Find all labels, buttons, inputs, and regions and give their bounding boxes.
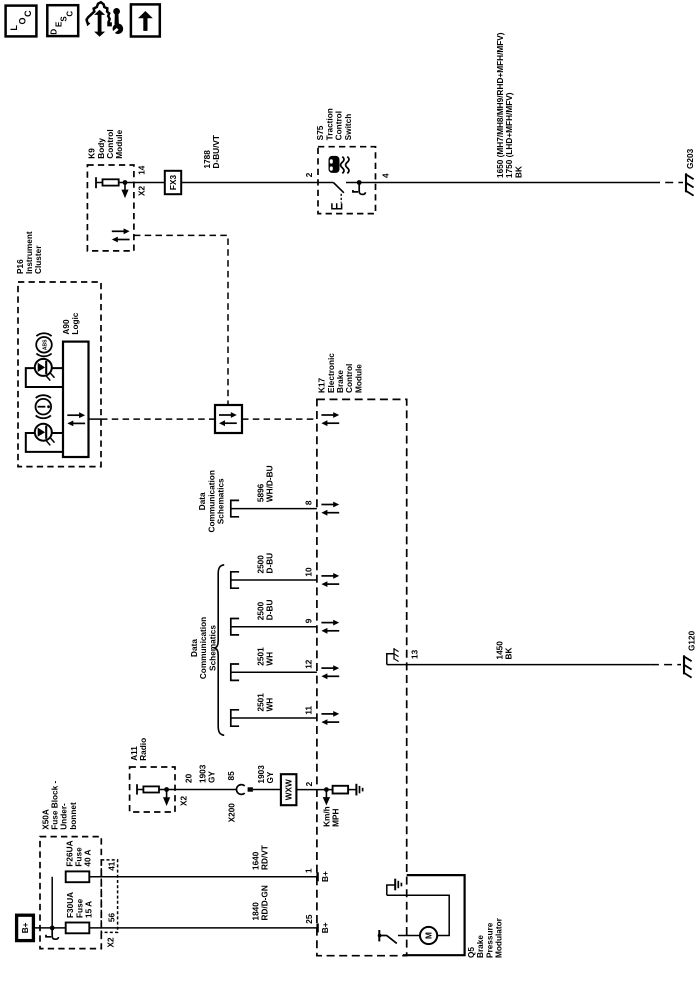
switch blade S75: [333, 183, 344, 193]
A90 Logic box: [63, 342, 89, 457]
wire 5896 WH/D-BU: [232, 508, 317, 510]
serial data arrows in A90: [67, 412, 85, 426]
svg-text:14: 14: [138, 165, 147, 175]
svg-text:11: 11: [304, 705, 313, 714]
svg-text:D: D: [50, 29, 59, 35]
serial arrows pin 11: [321, 711, 339, 725]
terminal tick pin 1: [316, 872, 318, 881]
off-page connector data wire 5896: [231, 500, 239, 516]
serial data arrows in K17: [321, 412, 339, 426]
S75 Traction Control Switch box: [318, 147, 376, 214]
wire 1903 GY from X200 to WXW: [253, 789, 281, 791]
off-page connector data wire 2500 pin 9: [231, 619, 239, 635]
A11 Radio box: [130, 767, 175, 812]
inline connector X200: [236, 785, 252, 795]
svg-text:X2: X2: [179, 795, 188, 806]
detent hook at S75: [353, 183, 366, 194]
wire 1788 from K9 to S75: [119, 182, 334, 184]
serial arrows pin 10: [321, 573, 339, 587]
resistor in A11: [137, 784, 159, 794]
wire 2501 WH pin 11: [232, 717, 317, 719]
junction dot S75 pin 4: [357, 180, 362, 185]
traction control icon in S75: [329, 156, 350, 174]
svg-text:O: O: [17, 17, 27, 24]
svg-text:10: 10: [304, 567, 313, 577]
dashed wire segment to G120: [651, 664, 681, 666]
svg-text:8: 8: [304, 500, 313, 505]
svg-text:2500D-BU: 2500D-BU: [257, 553, 275, 574]
junction dot Km/h: [324, 787, 329, 792]
K17 Electronic Brake Control Module box: [317, 399, 407, 955]
dashed serial bus junction box to K17: [242, 418, 317, 420]
svg-text:9: 9: [304, 618, 313, 623]
inline connector FX3: [165, 171, 181, 194]
K9 Body Control Module box: [87, 165, 133, 251]
dashed serial bus P16 to junction box: [101, 418, 215, 420]
serial data junction box: [215, 405, 242, 433]
signal arrow Km/h MPH: [323, 790, 330, 805]
wire resistor to internal ground: [348, 789, 356, 791]
svg-text:4: 4: [382, 173, 391, 178]
svg-text:B+: B+: [21, 922, 30, 933]
earth ground in K17 speed input: [356, 784, 362, 796]
svg-text:2: 2: [305, 172, 314, 177]
svg-text:X2: X2: [137, 185, 146, 196]
svg-text:M: M: [425, 932, 434, 939]
wire 2501 WH pin 12: [232, 671, 317, 673]
telltale (!) brake warning: [36, 395, 52, 418]
dashed wire segment to G203: [652, 182, 683, 184]
resistor in K17 speed input: [333, 786, 349, 794]
icon DESC box: [47, 5, 78, 36]
wire from A90 to P16 edge: [89, 418, 102, 420]
svg-text:FX3: FX3: [169, 175, 178, 191]
svg-text:G203: G203: [686, 148, 695, 169]
wire 2500 D-BU pin 10: [232, 579, 317, 581]
svg-text:12: 12: [304, 659, 313, 669]
svg-text:C: C: [65, 11, 74, 17]
wire 2500 D-BU pin 9: [232, 626, 317, 628]
svg-text:C: C: [23, 10, 33, 17]
svg-text:20: 20: [185, 773, 194, 783]
icon LOC box: [6, 6, 37, 37]
svg-text:1: 1: [305, 868, 314, 873]
svg-text:56: 56: [108, 913, 117, 923]
wire 1450 BK: [387, 664, 651, 666]
output arrow A11: [163, 790, 170, 806]
wire 1840 RD/D-GN to K17 pin 25: [89, 927, 317, 929]
serial arrows pin 12: [321, 665, 339, 679]
svg-text:Km/hMPH: Km/hMPH: [322, 806, 340, 827]
relay fixed contact in K17: [378, 930, 387, 941]
svg-text:B+: B+: [321, 922, 330, 933]
svg-text:25: 25: [305, 914, 314, 924]
junction dot A11 pin 20: [164, 787, 169, 792]
off-page connector data wire 2501 pin 11: [231, 710, 239, 726]
ground G120: [684, 655, 692, 677]
wire 1650 from S75 to G203: [346, 182, 652, 184]
splice curl to other circuits: [46, 929, 58, 940]
off-page connector data wire 2500 pin 10: [231, 572, 239, 588]
ground G203: [686, 173, 694, 195]
svg-text:X2: X2: [106, 937, 115, 948]
P16 Instrument Cluster box: [18, 282, 101, 467]
branch wire to F26UA: [51, 877, 53, 928]
telltale (ABS): [36, 333, 52, 356]
brace data communication group: [215, 565, 225, 736]
svg-text:13: 13: [411, 649, 420, 659]
svg-text:X200: X200: [227, 803, 236, 823]
svg-text:85: 85: [227, 771, 236, 781]
B+ terminal: [17, 915, 34, 940]
motor feed wire: [398, 935, 420, 937]
serial data arrows in K9: [112, 228, 130, 242]
serial arrows pin 9: [321, 620, 339, 634]
junction dot B+ branch: [50, 926, 55, 931]
svg-text:L: L: [9, 25, 19, 31]
serial data bus from K9 to junction: [134, 235, 228, 405]
svg-text:2500D-BU: 2500D-BU: [257, 600, 275, 621]
fuse F26UA 40A: [66, 871, 90, 882]
resistor in K9: [96, 177, 119, 188]
junction dot K9 pin 14: [123, 180, 128, 185]
icon vehicle with height adjust arrow and wrench: [85, 2, 123, 37]
fuse F30UA 15A: [66, 923, 90, 934]
wire B+ to F30UA: [35, 927, 66, 929]
serial arrows pin 8: [321, 502, 339, 516]
output arrow K9: [121, 183, 128, 198]
wire 1903 GY from A11 to X200: [159, 789, 236, 791]
pump motor M: [420, 927, 437, 944]
momentary actuator dashes: [340, 194, 342, 203]
indicator lamp brake warning: [26, 424, 63, 452]
svg-text:41: 41: [108, 861, 117, 871]
earth ground for pump motor: [387, 879, 402, 896]
internal ground symbol at pin 13: [387, 648, 399, 665]
motor return wire: [387, 895, 449, 935]
terminal tick pin 25: [316, 923, 318, 932]
icon up arrow box: [131, 4, 160, 36]
connector X2 box at fuse block: [101, 860, 117, 933]
connector WXW: [281, 774, 297, 805]
momentary bracket symbol: [332, 203, 342, 209]
wire 1640 RD/VT to K17 pin 1: [89, 876, 317, 878]
off-page connector data wire 2501 pin 12: [231, 664, 239, 680]
svg-text:2: 2: [305, 781, 314, 786]
svg-text:G120: G120: [687, 630, 696, 651]
indicator lamp ABS: [26, 359, 63, 387]
relay contact blade in K17: [387, 936, 397, 944]
wire from WXW into K17 pin 2: [296, 789, 332, 791]
svg-text:B+: B+: [321, 871, 330, 882]
svg-text:WXW: WXW: [284, 779, 293, 800]
svg-text:ABS: ABS: [42, 339, 48, 350]
X50A Fuse Block Underbonnet box: [40, 837, 101, 949]
Q5 Brake Pressure Modulator box: [403, 875, 465, 955]
